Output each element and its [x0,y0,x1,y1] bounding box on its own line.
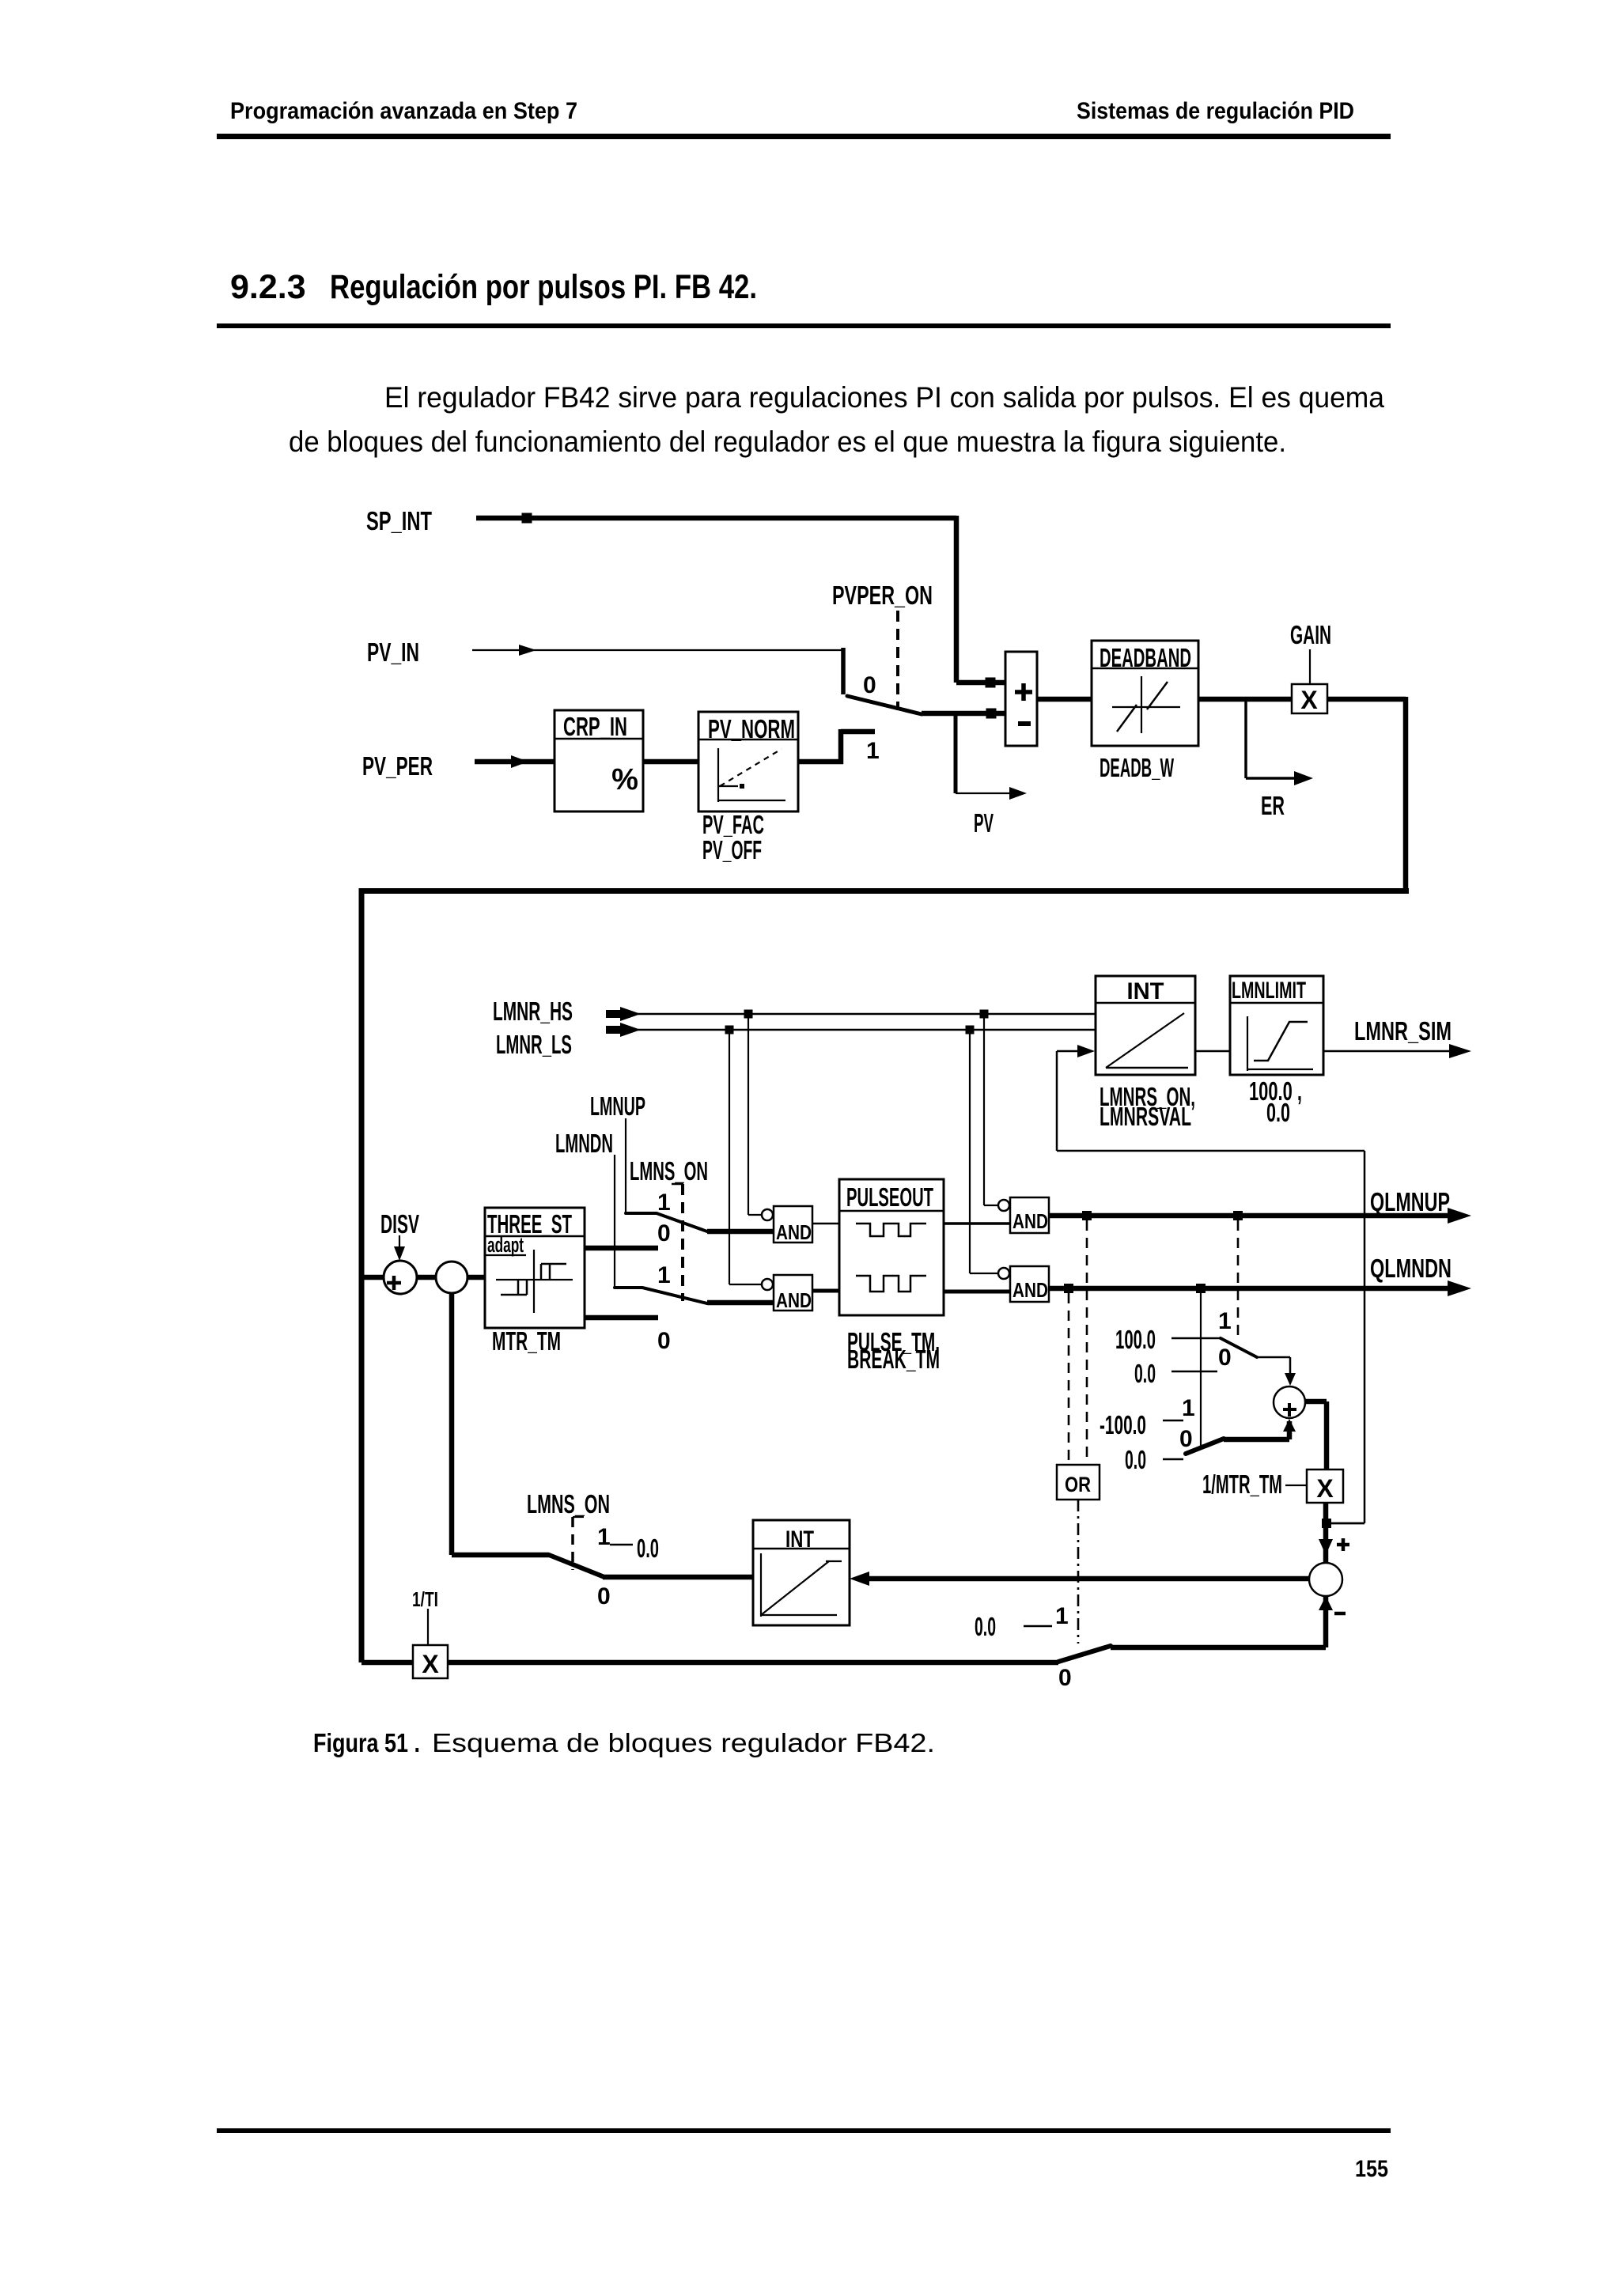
svg-text:9.2.3: 9.2.3 [230,268,306,306]
svg-text:SP_INT: SP_INT [366,506,432,535]
svg-text:%: % [611,763,638,796]
svg-text:LMNS_ON: LMNS_ON [630,1156,708,1186]
svg-text:OR: OR [1065,1473,1091,1496]
svg-text:LMNS_ON: LMNS_ON [527,1489,610,1519]
svg-text:0.0: 0.0 [975,1612,996,1641]
svg-text:PV_NORM: PV_NORM [708,714,795,743]
svg-text:0: 0 [1058,1665,1072,1691]
svg-text:LMNRSVAL: LMNRSVAL [1100,1102,1191,1131]
svg-text:Figura 51 .: Figura 51 . [313,1728,420,1757]
svg-text:CRP_IN: CRP_IN [563,712,627,741]
svg-text:QLMNUP: QLMNUP [1370,1187,1450,1216]
svg-text:DISV: DISV [380,1209,419,1239]
svg-text:PULSEOUT: PULSEOUT [846,1182,933,1212]
svg-text:1/TI: 1/TI [412,1587,438,1611]
svg-text:PV: PV [974,808,994,838]
svg-text:1: 1 [657,1190,671,1216]
svg-text:X: X [1300,686,1318,714]
svg-text:0: 0 [1218,1345,1232,1371]
svg-text:X: X [422,1650,439,1678]
svg-text:adapt: adapt [487,1233,524,1257]
svg-text:GAIN: GAIN [1290,620,1331,649]
svg-text:Sistemas de regulación PID: Sistemas de regulación PID [1077,98,1354,124]
svg-text:1: 1 [657,1262,671,1288]
svg-text:PV_PER: PV_PER [362,751,433,781]
svg-text:1: 1 [1218,1308,1232,1334]
svg-text:0: 0 [1179,1426,1193,1452]
svg-text:0: 0 [597,1583,611,1609]
svg-text:0: 0 [657,1220,671,1246]
svg-text:1: 1 [866,738,880,764]
svg-text:0: 0 [863,672,876,698]
svg-text:INT: INT [1127,978,1164,1004]
svg-text:-100.0: -100.0 [1100,1410,1146,1439]
svg-text:0.0: 0.0 [1125,1445,1146,1474]
svg-text:de bloques del funcionamiento: de bloques del funcionamiento del regula… [289,426,1286,458]
svg-text:LMNDN: LMNDN [555,1129,613,1158]
svg-text:1/MTR_TM: 1/MTR_TM [1202,1470,1282,1499]
svg-text:DEADBAND: DEADBAND [1100,643,1191,672]
svg-text:0.0: 0.0 [637,1534,659,1563]
svg-text:100.0: 100.0 [1115,1325,1156,1354]
svg-text:PVPER_ON: PVPER_ON [832,581,933,610]
svg-text:AND: AND [1012,1278,1048,1302]
svg-text:0.0: 0.0 [1134,1359,1156,1388]
svg-text:0: 0 [657,1328,671,1354]
svg-text:QLMNDN: QLMNDN [1370,1254,1452,1283]
svg-text:AND: AND [1012,1209,1048,1233]
svg-text:DEADB_W: DEADB_W [1100,753,1174,782]
svg-text:1: 1 [1182,1395,1195,1421]
svg-text:1: 1 [1055,1603,1069,1629]
svg-text:INT: INT [785,1526,814,1553]
svg-text:PV_IN: PV_IN [367,637,419,667]
svg-text:El regulador FB42 sirve para r: El regulador FB42 sirve para regulacione… [384,381,1384,414]
svg-text:Programación avanzada en Step: Programación avanzada en Step 7 [230,98,577,124]
svg-text:X: X [1316,1474,1334,1503]
svg-text:0.0: 0.0 [1266,1098,1290,1127]
svg-text:AND: AND [776,1220,812,1244]
svg-text:1: 1 [597,1524,611,1550]
svg-text:155: 155 [1355,2156,1388,2182]
svg-text:LMNLIMIT: LMNLIMIT [1232,978,1306,1004]
svg-text:ER: ER [1261,791,1285,820]
svg-text:LMNUP: LMNUP [590,1091,645,1121]
svg-text:PV_OFF: PV_OFF [702,835,762,864]
svg-text:LMNR_SIM: LMNR_SIM [1354,1016,1452,1046]
svg-text:BREAK_TM: BREAK_TM [847,1345,940,1374]
svg-text:LMNR_LS: LMNR_LS [496,1030,572,1059]
svg-text:Regulación por pulsos PI. FB 4: Regulación por pulsos PI. FB 42. [330,268,757,306]
svg-text:LMNR_HS: LMNR_HS [493,997,573,1026]
svg-text:MTR_TM: MTR_TM [492,1326,561,1356]
svg-text:Esquema de bloques regulador F: Esquema de bloques regulador FB42. [432,1728,935,1757]
svg-text:AND: AND [776,1288,812,1312]
